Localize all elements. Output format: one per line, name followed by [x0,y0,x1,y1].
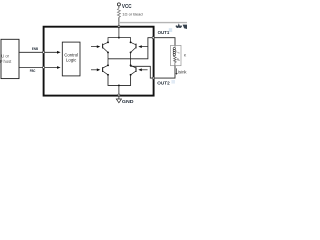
pin circle FBC [43,66,45,68]
resistor 1ohm or bead [117,8,120,17]
MCU host block [1,39,19,78]
wire resistor to IC top [118,17,120,26]
node VCC rail junction [118,37,120,39]
wire ENB [19,51,57,53]
svg-text:VCC: VCC [122,4,132,10]
svg-text:1Ω or Bead: 1Ω or Bead [122,12,142,17]
wire bridge bottom rail [108,75,131,86]
node GND rail junction [118,84,120,86]
pin circle OUT1 [152,37,154,39]
page fragment: navy glyphs top right [176,26,181,28]
gray page rule [119,22,187,24]
page fragment: pale blue square 2 [171,80,175,84]
wire left mid node [107,52,109,65]
wire GND feed [118,85,120,99]
wire FBC [19,67,57,69]
ground [116,99,121,103]
svg-text:OUT1: OUT1 [158,30,170,36]
svg-text:µP host: µP host [0,59,12,64]
wire right mid node [130,52,132,65]
wire OUT2 [131,65,175,78]
wire VCC to resistor [118,6,120,8]
inductor Ls [173,47,175,49]
transistor Q1 top-left [91,42,108,52]
pin circle ENB [43,51,45,53]
VCC terminal [117,3,120,6]
arrowhead FBC into control logic [57,66,61,69]
pin circle VCC [118,26,120,28]
big IC boundary box [44,27,154,96]
transistor Q4 bottom-right [131,65,148,75]
svg-text:Logic: Logic [66,57,77,62]
current arrow Isink [176,68,178,73]
svg-text:FBC: FBC [30,68,36,73]
load box (speaker model) [171,45,182,65]
svg-text:OUT2: OUT2 [157,80,170,86]
arrowhead ENB into control logic [57,51,61,54]
wire VCC feed inside IC [118,27,120,38]
page fragment: pale blue square [169,28,172,32]
transistor Q3 bottom-left [91,65,108,75]
wire OUT1 [108,38,175,59]
pin circle GND [118,94,120,96]
resistor Rs [174,56,177,66]
svg-text:ENB: ENB [32,46,38,51]
control logic U1 [62,42,80,76]
svg-text:GND: GND [122,99,134,105]
transistor Q2 top-right [131,42,148,52]
wire bridge top rail [108,38,131,43]
pin circle OUT2 [152,77,154,79]
svg-text:Isink: Isink [178,70,187,75]
